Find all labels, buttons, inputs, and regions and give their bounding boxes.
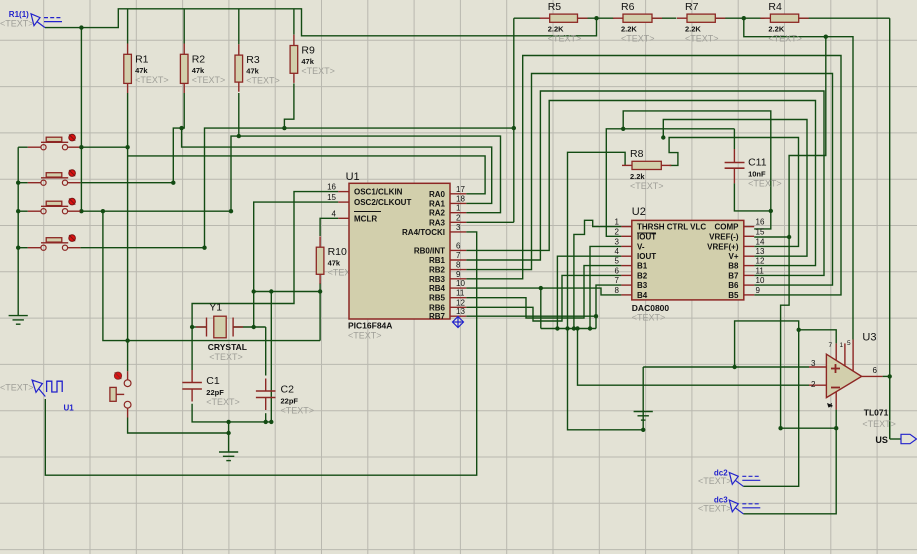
svg-text:C11: C11 [748, 157, 767, 169]
svg-text:2.2k: 2.2k [630, 172, 645, 181]
svg-text:<TEXT>: <TEXT> [192, 75, 226, 85]
svg-text:3: 3 [615, 237, 620, 246]
svg-text:OSC1/CLKIN: OSC1/CLKIN [354, 188, 403, 197]
svg-text:9: 9 [756, 286, 761, 295]
svg-text:RB5: RB5 [429, 294, 446, 303]
svg-text:R5: R5 [548, 1, 562, 13]
svg-text:<TEXT>: <TEXT> [281, 406, 315, 416]
svg-text:RB3: RB3 [429, 275, 446, 284]
svg-text:2.2K: 2.2K [768, 25, 784, 34]
svg-text:2.2K: 2.2K [548, 25, 564, 34]
svg-text:2.2K: 2.2K [621, 25, 637, 34]
svg-text:13: 13 [756, 247, 765, 256]
svg-text:U3: U3 [862, 331, 876, 343]
svg-text:<TEXT>: <TEXT> [206, 397, 240, 407]
svg-text:1: 1 [615, 218, 620, 227]
svg-text:R7: R7 [685, 1, 699, 13]
svg-text:<TEXT>: <TEXT> [630, 181, 664, 191]
svg-text:6: 6 [873, 366, 878, 375]
svg-text:22pF: 22pF [206, 388, 224, 397]
svg-text:US: US [875, 435, 888, 445]
svg-text:15: 15 [327, 193, 336, 202]
svg-text:TL071: TL071 [864, 408, 889, 418]
svg-text:<TEXT>: <TEXT> [548, 34, 582, 44]
svg-text:CRYSTAL: CRYSTAL [208, 342, 247, 352]
svg-text:10: 10 [456, 279, 465, 288]
svg-text:DAC0800: DAC0800 [632, 303, 670, 313]
svg-text:47k: 47k [192, 66, 205, 75]
svg-text:8: 8 [615, 286, 620, 295]
svg-text:22pF: 22pF [281, 397, 299, 406]
svg-text:7: 7 [615, 276, 620, 285]
svg-text:V+: V+ [728, 252, 738, 261]
svg-text:11: 11 [756, 266, 765, 275]
svg-text:MCLR: MCLR [354, 214, 377, 223]
svg-text:<TEXT>: <TEXT> [135, 75, 169, 85]
svg-text:6: 6 [456, 241, 461, 250]
svg-text:C1: C1 [206, 375, 220, 387]
svg-text:B7: B7 [728, 271, 739, 280]
svg-text:R3: R3 [246, 54, 260, 66]
svg-text:RA3: RA3 [429, 218, 446, 227]
svg-text:RA4/TOCKI: RA4/TOCKI [402, 228, 445, 237]
svg-text:11: 11 [456, 289, 465, 298]
svg-text:Y1: Y1 [209, 302, 222, 314]
svg-text:16: 16 [756, 218, 765, 227]
svg-text:<TEXT>: <TEXT> [0, 382, 34, 392]
svg-text:<TEXT>: <TEXT> [698, 476, 732, 486]
svg-text:<TEXT>: <TEXT> [209, 352, 243, 362]
svg-text:<TEXT>: <TEXT> [246, 76, 280, 86]
svg-text:R9: R9 [301, 45, 315, 57]
svg-text:C2: C2 [281, 384, 295, 396]
svg-text:R8: R8 [630, 148, 644, 160]
svg-text:THRSH CTRL VLC: THRSH CTRL VLC [637, 223, 706, 232]
svg-text:V-: V- [637, 242, 645, 251]
svg-text:15: 15 [756, 227, 765, 236]
svg-text:IOUT: IOUT [637, 232, 656, 241]
svg-text:<TEXT>: <TEXT> [632, 313, 666, 323]
svg-text:12: 12 [756, 257, 765, 266]
svg-text:4: 4 [332, 209, 337, 218]
svg-text:1: 1 [840, 342, 844, 349]
svg-text:8: 8 [456, 261, 461, 270]
svg-text:5: 5 [615, 257, 620, 266]
svg-text:47k: 47k [135, 66, 148, 75]
svg-text:<TEXT>: <TEXT> [301, 66, 335, 76]
svg-text:7: 7 [456, 251, 461, 260]
svg-text:14: 14 [756, 237, 765, 246]
svg-text:OSC2/CLKOUT: OSC2/CLKOUT [354, 198, 411, 207]
svg-text:2: 2 [615, 227, 620, 236]
svg-text:4: 4 [615, 247, 620, 256]
svg-text:PIC16F84A: PIC16F84A [348, 320, 392, 330]
svg-text:10: 10 [756, 276, 765, 285]
svg-text:B3: B3 [637, 281, 648, 290]
svg-text:1: 1 [456, 204, 461, 213]
svg-text:10nF: 10nF [748, 170, 766, 179]
svg-text:16: 16 [327, 183, 336, 192]
svg-text:17: 17 [456, 185, 465, 194]
svg-text:B1: B1 [637, 262, 648, 271]
svg-text:COMP: COMP [715, 223, 740, 232]
svg-text:RA0: RA0 [429, 190, 446, 199]
svg-text:9: 9 [456, 270, 461, 279]
svg-text:U1: U1 [346, 171, 360, 183]
svg-text:R10: R10 [328, 246, 347, 258]
svg-text:RB6: RB6 [429, 303, 446, 312]
svg-text:<TEXT>: <TEXT> [748, 179, 782, 189]
svg-text:U1: U1 [64, 403, 75, 412]
svg-text:12: 12 [456, 298, 465, 307]
svg-text:<TEXT>: <TEXT> [862, 419, 896, 429]
svg-text:3: 3 [456, 223, 461, 232]
svg-text:B2: B2 [637, 271, 648, 280]
svg-text:47k: 47k [301, 57, 314, 66]
svg-text:RB7: RB7 [429, 312, 446, 321]
svg-text:B5: B5 [728, 291, 739, 300]
svg-text:13: 13 [456, 307, 465, 316]
svg-text:<TEXT>: <TEXT> [0, 19, 34, 29]
svg-text:47k: 47k [246, 67, 259, 76]
svg-text:B4: B4 [637, 291, 648, 300]
svg-text:VREF(-): VREF(-) [709, 232, 739, 241]
svg-text:RB0/INT: RB0/INT [414, 246, 445, 255]
svg-text:RB2: RB2 [429, 266, 446, 275]
svg-text:RB1: RB1 [429, 256, 446, 265]
svg-text:47k: 47k [328, 259, 341, 268]
svg-text:R4: R4 [768, 1, 782, 13]
svg-text:<TEXT>: <TEXT> [621, 34, 655, 44]
svg-text:R1: R1 [135, 53, 149, 65]
svg-text:IOUT: IOUT [637, 252, 656, 261]
svg-text:B8: B8 [728, 262, 739, 271]
svg-text:RA1: RA1 [429, 199, 446, 208]
svg-text:<TEXT>: <TEXT> [348, 331, 382, 341]
svg-text:R6: R6 [621, 1, 635, 13]
svg-text:2: 2 [456, 213, 461, 222]
svg-text:6: 6 [615, 266, 620, 275]
svg-text:<TEXT>: <TEXT> [698, 503, 732, 513]
svg-text:VREF(+): VREF(+) [707, 242, 739, 251]
svg-text:RB4: RB4 [429, 284, 446, 293]
svg-text:7: 7 [829, 342, 833, 349]
svg-text:R2: R2 [192, 53, 206, 65]
svg-text:5: 5 [847, 340, 851, 347]
svg-text:3: 3 [811, 359, 816, 368]
svg-text:2.2K: 2.2K [685, 25, 701, 34]
svg-text:<TEXT>: <TEXT> [768, 34, 802, 44]
svg-text:U2: U2 [632, 206, 646, 218]
svg-text:<TEXT>: <TEXT> [685, 34, 719, 44]
svg-text:2: 2 [811, 380, 816, 389]
svg-text:18: 18 [456, 194, 465, 203]
svg-text:B6: B6 [728, 281, 739, 290]
svg-text:RA2: RA2 [429, 209, 446, 218]
